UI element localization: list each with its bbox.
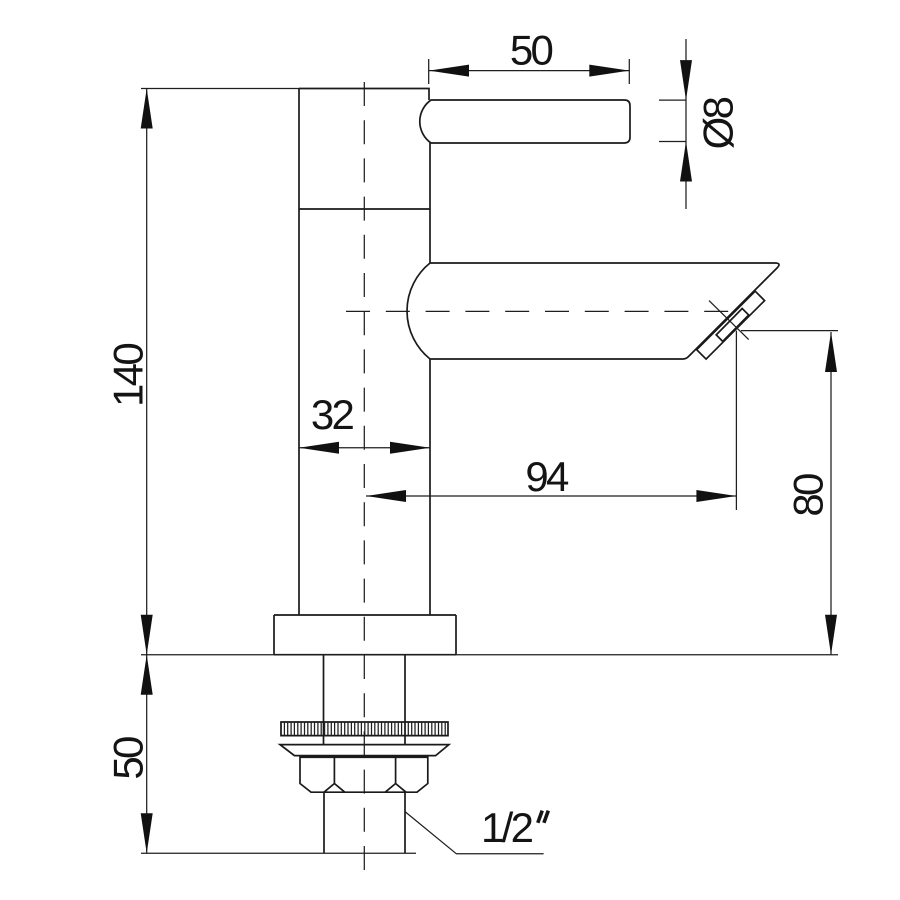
svg-text:50: 50 (510, 26, 553, 73)
svg-text:80: 80 (784, 474, 831, 517)
svg-text:140: 140 (105, 344, 152, 407)
svg-text:Ø8: Ø8 (695, 97, 742, 149)
svg-text:94: 94 (525, 453, 569, 500)
svg-text:1/2: 1/2 (481, 804, 533, 851)
svg-text:50: 50 (105, 737, 152, 780)
svg-text:32: 32 (311, 391, 354, 438)
